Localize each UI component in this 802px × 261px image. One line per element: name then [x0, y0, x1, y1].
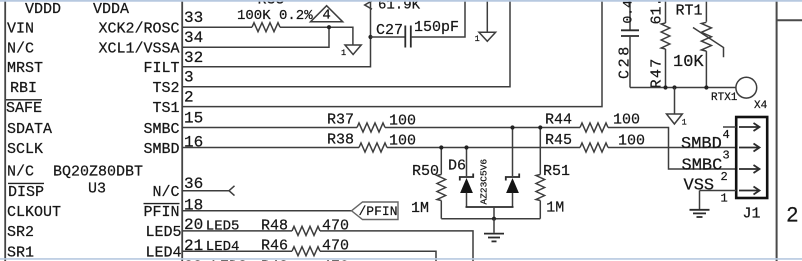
svg-text:BQ20Z80DBT: BQ20Z80DBT: [53, 164, 143, 181]
svg-text:LED5: LED5: [146, 224, 182, 241]
svg-text:R45: R45: [545, 132, 572, 149]
right diode, anode bottom: [512, 128, 514, 177]
svg-text:TS2: TS2: [153, 80, 180, 97]
svg-text:4: 4: [322, 8, 330, 24]
svg-text:PFIN: PFIN: [144, 204, 180, 221]
J1 pin4 stub: [723, 126, 736, 128]
svg-text:SMBC: SMBC: [144, 121, 180, 138]
svg-text:LED5: LED5: [206, 219, 240, 235]
J1 pin1 wire VSS: [700, 190, 737, 192]
wire pin15 R37 to R44: [385, 127, 580, 129]
resistor R46 470: [261, 238, 349, 256]
svg-text:R51: R51: [543, 163, 570, 180]
dual zener diode D6 AZ23C5V6: [448, 128, 519, 219]
wire pin15 SMBC row chip to R37: [182, 127, 357, 129]
U3 right pin label PFIN with overline: [144, 204, 180, 222]
no-connect fork on pin36: [229, 186, 235, 196]
svg-text:3: 3: [184, 69, 194, 87]
resistor R50 1M: [411, 148, 446, 219]
svg-text:J1: J1: [743, 206, 761, 223]
svg-text:R37: R37: [327, 112, 354, 129]
capacitor C27 left lead: [371, 36, 406, 38]
svg-text:33: 33: [184, 9, 203, 27]
wire pin20 R48 to bottom: [320, 231, 473, 261]
resistor R37: [327, 112, 416, 133]
wire pin21 R46 to bottom: [320, 251, 436, 261]
svg-text:XCK2/ROSC: XCK2/ROSC: [99, 21, 180, 38]
svg-text:AZ23C5V6: AZ23C5V6: [479, 159, 490, 205]
svg-text:61.9K: 61.9K: [378, 0, 421, 14]
J1 pin 2 arrow: [739, 165, 760, 173]
svg-text:RTX1: RTX1: [711, 92, 738, 104]
svg-text:R38: R38: [327, 132, 354, 149]
resistor R45: [545, 132, 645, 152]
sheet border line: [776, 0, 778, 261]
svg-text:/PFIN: /PFIN: [359, 204, 398, 219]
sheet border tick: [777, 19, 802, 21]
svg-text:470: 470: [322, 217, 349, 234]
svg-text:VDDA: VDDA: [93, 1, 129, 18]
svg-text:2: 2: [787, 204, 799, 227]
U3 left pin label SAFE with overline: [6, 100, 42, 117]
svg-text:R46: R46: [261, 238, 288, 255]
svg-text:N/C: N/C: [7, 164, 34, 181]
wire pin3 TS2 row: [182, 0, 510, 87]
IC U3 BQ20Z80DBT body: [5, 0, 182, 261]
svg-text:15: 15: [184, 109, 203, 127]
svg-text:1: 1: [475, 34, 480, 44]
capacitor C27 right lead: [411, 0, 465, 37]
J1 pin 3 arrow: [739, 144, 760, 152]
svg-text:1M: 1M: [411, 200, 429, 217]
svg-text:150pF: 150pF: [414, 19, 459, 36]
svg-text:4: 4: [723, 128, 730, 142]
svg-text:0.47uF: 0.47uF: [621, 0, 636, 24]
resistor R36 wiper arrow (cut off at top): [365, 1, 372, 9]
svg-text:SDATA: SDATA: [7, 121, 52, 138]
ground rail under D6: [441, 218, 540, 220]
J1 pin 1 arrow: [739, 187, 760, 195]
connector J1 box: [736, 117, 767, 198]
ground flag 1 column at x487: [475, 0, 496, 44]
svg-text:1: 1: [682, 117, 687, 127]
svg-text:SMBD: SMBD: [681, 135, 722, 154]
svg-text:X4: X4: [754, 100, 768, 112]
earth ground at J1 pin1: [690, 191, 710, 218]
wire pin36 N/C stub: [182, 190, 229, 192]
svg-text:2: 2: [184, 88, 194, 106]
svg-text:SAFE: SAFE: [6, 100, 42, 117]
U3 left pin label DISP with overline: [8, 183, 44, 201]
junction D6 left on SMBD row: [464, 145, 468, 149]
svg-text:21: 21: [184, 237, 203, 255]
svg-text:SMBD: SMBD: [144, 141, 180, 158]
left diode, anode bottom: [466, 148, 468, 177]
junction pin34 to pin33: [327, 25, 331, 29]
junction C27 tap on FILT column: [368, 35, 372, 39]
svg-text:U3: U3: [88, 181, 106, 198]
wire pin16 R45 to J1 pin3: [608, 147, 736, 149]
svg-text:SCLK: SCLK: [7, 141, 43, 158]
svg-text:R47: R47: [649, 57, 666, 88]
junction D6 right on SMBC row: [510, 125, 514, 129]
wire pin16 R38 to R45: [387, 147, 580, 149]
svg-text:34: 34: [184, 29, 203, 47]
off-page flag /PFIN: [352, 202, 399, 220]
wire pin2 TS1 row: [182, 0, 602, 107]
svg-text:R48: R48: [261, 217, 288, 234]
resistor R51 1M: [536, 128, 570, 219]
svg-text:18: 18: [184, 196, 203, 214]
J1 pin 4 arrow: [739, 123, 760, 131]
resistor R47: [649, 0, 670, 89]
capacitor C28: [617, 0, 640, 88]
svg-text:1: 1: [721, 192, 728, 206]
svg-text:N/C: N/C: [153, 184, 180, 201]
resistor R35 zigzag: [252, 23, 280, 32]
common anode bar: [466, 206, 514, 208]
svg-text:R44: R44: [545, 112, 572, 129]
net flag 4 triangle: [311, 6, 343, 24]
svg-text:XCL1/VSSA: XCL1/VSSA: [99, 41, 180, 58]
svg-text:D6: D6: [448, 158, 466, 175]
svg-text:470: 470: [322, 238, 349, 255]
earth ground symbol under D6: [484, 219, 504, 242]
wire pin34 XCL1/VSSA to pin33 net: [182, 27, 329, 47]
svg-text:C27: C27: [376, 22, 403, 39]
svg-text:MRST: MRST: [7, 60, 43, 77]
svg-text:SR2: SR2: [7, 224, 34, 241]
svg-text:TS1: TS1: [153, 100, 180, 117]
svg-text:32: 32: [184, 49, 203, 67]
svg-text:C28: C28: [617, 44, 634, 79]
svg-text:CLKOUT: CLKOUT: [7, 204, 61, 221]
wire pin32 FILT row: [182, 0, 371, 67]
svg-text:RBI: RBI: [10, 80, 37, 97]
svg-text:N/C: N/C: [7, 41, 34, 58]
svg-text:1: 1: [341, 48, 346, 58]
wire pin18 PFIN row: [182, 210, 352, 212]
ground flag 1 on pin33 net: [341, 45, 361, 58]
svg-text:16: 16: [184, 134, 203, 152]
svg-text:DISP: DISP: [8, 184, 44, 201]
ground flag 1 under thermistor rail: [667, 88, 687, 128]
selection highlight line top: [0, 0, 802, 2]
resistor R38: [327, 132, 416, 153]
svg-text:SMBC: SMBC: [682, 156, 723, 175]
svg-text:61.9K: 61.9K: [649, 0, 666, 25]
svg-text:VIN: VIN: [7, 21, 34, 38]
junction R51 top on SMBC row: [538, 125, 542, 129]
resistor R48 470: [261, 217, 349, 235]
wire pin16 SMBD row chip to R38: [182, 147, 359, 149]
svg-text:LED4: LED4: [206, 239, 240, 255]
wire pin20 LED5 row: [182, 230, 292, 232]
junction R50 top on SMBD row: [439, 145, 443, 149]
wire pin33 after resistor: [280, 27, 353, 45]
selection highlight line bottom: [0, 258, 802, 260]
wire pin21 LED4 row: [182, 250, 292, 252]
svg-text:RT1: RT1: [676, 3, 703, 20]
test point RTX1 X4 circle: [711, 77, 768, 112]
thermistor net rail: [630, 87, 736, 89]
svg-text:10K: 10K: [673, 53, 704, 72]
svg-text:100K 0.2%: 100K 0.2%: [237, 8, 313, 24]
thermistor RT1 10K: [673, 0, 724, 88]
wire pin15 R44 to J1 pin2 jog: [608, 128, 736, 170]
svg-text:VDDD: VDDD: [25, 1, 61, 18]
resistor R44: [545, 112, 640, 133]
svg-text:FILT: FILT: [144, 60, 180, 77]
svg-text:1M: 1M: [546, 200, 564, 217]
svg-text:R50: R50: [412, 163, 439, 180]
wire pin33 XCK2/ROSC row: [182, 26, 252, 28]
svg-text:100: 100: [613, 112, 640, 129]
svg-text:3: 3: [723, 149, 730, 163]
capacitor C27 plates: [405, 26, 411, 48]
